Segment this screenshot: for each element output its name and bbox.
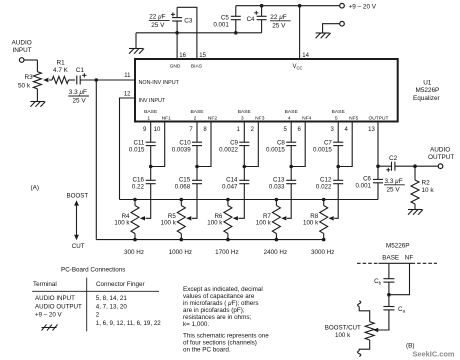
svg-text:2: 2: [194, 115, 197, 121]
svg-text:BASE: BASE: [238, 109, 252, 115]
ground at terminal: [316, 33, 331, 38]
wire R1 to C1: [69, 79, 76, 81]
svg-text:GND: GND: [170, 64, 181, 70]
svg-text:50 k: 50 k: [18, 83, 31, 90]
svg-text:R1: R1: [57, 60, 66, 67]
potentiometer BOOST/CUT 100k: [325, 322, 375, 340]
wire pot bottom with break: [358, 340, 370, 356]
svg-text:13: 13: [368, 127, 375, 133]
wire ground stem: [135, 33, 137, 49]
svg-text:R3: R3: [25, 74, 34, 81]
svg-text:Terminal: Terminal: [33, 281, 57, 288]
svg-text:of four sections (channels): of four sections (channels): [183, 340, 257, 347]
wire C7 to node: [337, 146, 339, 167]
capacitor C5 0.001: [213, 6, 240, 33]
svg-text:25 V: 25 V: [387, 187, 401, 194]
wire C1 to pin 11: [80, 79, 135, 81]
potentiometer R5 100k: [161, 200, 186, 240]
pin 1 BASE 3 lead: [237, 109, 252, 142]
node C5 ground: [234, 31, 238, 35]
svg-text:are in picofarads (pF);: are in picofarads (pF);: [183, 307, 245, 314]
node R4 bottom: [133, 238, 137, 242]
svg-text:+9 – 20 V: +9 – 20 V: [349, 3, 377, 10]
svg-text:C14: C14: [226, 176, 238, 183]
svg-text:22 μF: 22 μF: [149, 14, 165, 21]
svg-text:3: 3: [241, 115, 244, 121]
wire C12 to R8 wiper: [329, 184, 339, 221]
svg-text:AUDIO INPUT: AUDIO INPUT: [35, 295, 75, 302]
svg-text:4: 4: [288, 115, 291, 121]
pin 6 NF4 lead: [291, 115, 311, 166]
svg-text:0.001: 0.001: [213, 21, 229, 28]
svg-text:M5226P: M5226P: [416, 87, 440, 94]
node R8 top: [322, 198, 326, 202]
svg-text:25 V: 25 V: [151, 22, 165, 29]
svg-text:2400 Hz: 2400 Hz: [264, 249, 287, 256]
capacitor C13 0.033: [269, 167, 296, 191]
svg-text:BIAS: BIAS: [191, 64, 203, 70]
potentiometer R7 100k: [256, 200, 281, 240]
svg-text:M5226P: M5226P: [386, 243, 409, 250]
capacitor C14 0.047: [222, 167, 249, 191]
svg-text:1: 1: [147, 115, 150, 121]
svg-text:VCC: VCC: [293, 64, 303, 71]
svg-text:C6: C6: [363, 175, 371, 182]
svg-text:PC-Board Connections: PC-Board Connections: [61, 267, 125, 274]
svg-text:0.0015: 0.0015: [266, 146, 285, 153]
svg-text:R2: R2: [422, 180, 431, 187]
terminal +9-20V: [340, 3, 377, 10]
wire C15 to R5 wiper: [186, 184, 197, 221]
svg-text:4.7 K: 4.7 K: [53, 67, 69, 74]
pin 14 VCC lead: [293, 6, 310, 71]
wire C16 to R4 wiper: [140, 184, 151, 221]
svg-text:C13: C13: [273, 176, 285, 183]
ground at R3: [30, 102, 45, 107]
svg-text:5: 5: [335, 115, 338, 121]
capacitor C16 0.22: [132, 167, 156, 191]
svg-text:NF: NF: [405, 254, 414, 261]
svg-text:0.022: 0.022: [316, 183, 332, 190]
svg-text:AUDIO OUTPUT: AUDIO OUTPUT: [35, 303, 82, 310]
svg-text:3000 Hz: 3000 Hz: [311, 249, 334, 256]
node C4 to rail: [260, 4, 264, 8]
svg-text:C3: C3: [184, 17, 193, 24]
capacitor C6 0.001: [356, 166, 383, 199]
resistor R1 4.7K: [52, 60, 69, 84]
capacitor C4 22uF: [247, 6, 291, 33]
wire Ca to wiper (detail): [373, 310, 389, 332]
svg-text:on the PC board.: on the PC board.: [183, 347, 231, 354]
input bus wire (pot bottoms): [96, 239, 323, 241]
capacitor C9 0.0022: [219, 140, 249, 154]
node R6 top: [226, 198, 230, 202]
ground at R2: [408, 210, 423, 215]
svg-text:C16: C16: [133, 176, 145, 183]
node R7 bottom: [275, 238, 279, 242]
svg-text:0.0015: 0.0015: [313, 146, 332, 153]
pin 7 BASE 2 lead: [189, 109, 204, 142]
svg-text:4, 7, 13, 20: 4, 7, 13, 20: [96, 303, 128, 310]
pin 2 NF3 lead: [244, 115, 264, 166]
svg-text:0.0022: 0.0022: [219, 146, 238, 153]
svg-text:BASE: BASE: [382, 254, 399, 261]
pin 11 label NON-INV INPUT: [124, 73, 179, 86]
terminal AUDIO INPUT: [12, 40, 32, 63]
svg-text:values of capacitance are: values of capacitance are: [183, 293, 255, 300]
svg-text:1, 6, 9, 12, 11, 6, 19, 22: 1, 6, 9, 12, 11, 6, 19, 22: [96, 320, 161, 327]
svg-text:11: 11: [124, 73, 131, 79]
capacitor C3 22uF bypass: [149, 7, 193, 29]
svg-text:+9 – 20 V: +9 – 20 V: [35, 312, 63, 319]
node R5 bottom: [180, 238, 184, 242]
svg-text:1000 Hz: 1000 Hz: [169, 249, 192, 256]
table PC-Board Connections: [32, 267, 161, 332]
svg-text:25 V: 25 V: [73, 98, 87, 105]
svg-text:C15: C15: [179, 176, 191, 183]
svg-text:BASE: BASE: [144, 109, 158, 115]
svg-text:10 k: 10 k: [422, 187, 435, 194]
svg-text:2: 2: [96, 312, 100, 319]
svg-text:U1: U1: [423, 80, 432, 87]
svg-text:BASE: BASE: [190, 109, 204, 115]
wire C14 to R6 wiper: [233, 184, 245, 221]
pin 5 BASE 4 lead: [284, 109, 299, 142]
potentiometer R4 100k: [114, 200, 139, 240]
wire C8 to node: [290, 146, 292, 167]
svg-text:0.047: 0.047: [222, 183, 238, 190]
svg-text:100 k: 100 k: [303, 220, 319, 227]
svg-text:0.001: 0.001: [356, 182, 372, 189]
svg-text:This schematic represents one: This schematic represents one: [183, 333, 269, 340]
terminal AUDIO OUTPUT: [428, 147, 454, 169]
pin 10 NF1 lead: [151, 115, 171, 166]
pin 12 INV INPUT wire to feedback bus: [120, 92, 166, 200]
node R7 top: [275, 198, 279, 202]
svg-text:100 k: 100 k: [256, 220, 272, 227]
capacitor C7 0.0015: [313, 140, 343, 154]
svg-text:NF1: NF1: [162, 115, 172, 121]
capacitor C1 3.3uF: [68, 67, 89, 105]
capacitor C2 3.3uF: [384, 155, 405, 194]
node after C1: [95, 78, 99, 82]
wire pot top with break: [358, 301, 370, 322]
supply rail wire: [236, 5, 340, 7]
capacitor Cb: [374, 263, 394, 294]
svg-text:(A): (A): [31, 185, 40, 192]
wire C13 to R7 wiper: [281, 184, 291, 221]
svg-text:12: 12: [124, 92, 131, 98]
svg-text:10: 10: [154, 127, 161, 133]
pin 4 NF5 lead: [338, 115, 358, 166]
node BASE3/NF3 junction: [243, 165, 247, 169]
svg-text:resistances are in ohms;: resistances are in ohms;: [183, 314, 251, 321]
svg-text:NON-INV INPUT: NON-INV INPUT: [139, 80, 180, 86]
ground at C3: [129, 49, 144, 54]
svg-text:OUTPUT: OUTPUT: [368, 115, 388, 121]
dashed IC edge line: [357, 262, 437, 264]
terminal ground return: [323, 21, 345, 33]
pin 13 OUTPUT lead: [368, 115, 388, 166]
svg-text:0.0039: 0.0039: [172, 146, 191, 153]
svg-text:AUDIO: AUDIO: [12, 40, 32, 47]
svg-text:5, 8, 14, 21: 5, 8, 14, 21: [96, 295, 128, 302]
capacitor C8 0.0015: [266, 140, 296, 154]
svg-text:OUTPUT: OUTPUT: [428, 154, 454, 161]
svg-text:BOOST: BOOST: [67, 192, 89, 199]
capacitor C12 0.022: [316, 167, 343, 191]
node R2 top: [413, 164, 417, 168]
svg-text:SeekIC.com: SeekIC.com: [413, 349, 455, 358]
node C3 ground: [175, 31, 179, 35]
svg-text:16: 16: [179, 53, 186, 59]
resistor R2 10k: [411, 166, 434, 209]
feedback bus wire: [120, 199, 379, 201]
svg-text:0.068: 0.068: [175, 183, 191, 190]
note text block 2: [183, 333, 269, 354]
svg-text:22 μF: 22 μF: [270, 14, 286, 21]
node Cb/NF junction (detail): [387, 293, 391, 297]
svg-text:Except as indicated, decimal: Except as indicated, decimal: [183, 286, 263, 293]
svg-text:NF4: NF4: [302, 115, 312, 121]
capacitor C10 0.0039: [172, 140, 202, 154]
wire C9 to node: [243, 146, 245, 167]
node R4 top: [133, 198, 137, 202]
svg-text:Connector Finger: Connector Finger: [96, 281, 145, 288]
svg-text:100 k: 100 k: [114, 220, 130, 227]
svg-text:NF3: NF3: [255, 115, 265, 121]
wire loop pin16 top to pin 15: [177, 7, 197, 59]
svg-text:1700 Hz: 1700 Hz: [215, 249, 238, 256]
svg-text:0.033: 0.033: [269, 183, 285, 190]
svg-text:BASE: BASE: [285, 109, 299, 115]
node R8 bottom: [322, 238, 326, 242]
svg-text:100 k: 100 k: [335, 332, 351, 339]
capacitor C11 0.015: [129, 140, 156, 154]
wire input terminal to R3 top: [24, 60, 37, 72]
ground wire under C3/C5/C4: [136, 32, 262, 34]
pin 15 BIAS label: [191, 53, 207, 70]
node BASE5/NF5 junction: [336, 165, 340, 169]
node pin14 to rail: [298, 4, 302, 8]
svg-text:CUT: CUT: [72, 243, 85, 250]
node R5 top: [180, 198, 184, 202]
wire C10 to node: [196, 146, 198, 167]
svg-text:25 V: 25 V: [272, 23, 286, 30]
svg-text:AUDIO: AUDIO: [430, 147, 450, 154]
svg-text:NF5: NF5: [349, 115, 359, 121]
svg-text:Equalizer: Equalizer: [413, 95, 441, 102]
pin 3 BASE 5 lead: [331, 109, 346, 142]
svg-text:C2: C2: [389, 155, 398, 162]
wire R3 wiper to R1: [49, 79, 52, 81]
boost/cut direction arrow: [74, 200, 79, 240]
svg-text:0.015: 0.015: [129, 146, 145, 153]
svg-text:15: 15: [199, 53, 206, 59]
svg-text:NF2: NF2: [208, 115, 218, 121]
wire output node to C2: [378, 165, 391, 167]
pin 9 BASE 1 lead: [143, 109, 158, 142]
svg-text:INV INPUT: INV INPUT: [139, 98, 166, 104]
svg-text:C1: C1: [76, 67, 85, 74]
pin 16 GND lead: [170, 21, 187, 70]
svg-text:14: 14: [302, 53, 309, 59]
capacitor Ca: [383, 295, 405, 314]
svg-text:100 k: 100 k: [207, 220, 223, 227]
node output: [376, 164, 380, 168]
node R6 bottom: [226, 238, 230, 242]
potentiometer R3 50k: [18, 72, 48, 90]
svg-text:0.22: 0.22: [132, 183, 145, 190]
svg-text:3.3 μF: 3.3 μF: [385, 178, 403, 185]
svg-text:300 Hz: 300 Hz: [124, 249, 144, 256]
svg-text:100 k: 100 k: [161, 220, 177, 227]
svg-text:in microfarads ( μF); others: in microfarads ( μF); others: [183, 300, 259, 307]
svg-text:C4: C4: [247, 16, 255, 23]
wire R3 bottom to ground: [36, 89, 38, 102]
ground symbol in table: [42, 325, 58, 331]
node BASE4/NF4 junction: [289, 165, 293, 169]
node BASE2/NF2 junction: [195, 165, 199, 169]
pin 8 NF2 lead: [197, 115, 217, 166]
svg-text:k= 1,000.: k= 1,000.: [183, 321, 209, 328]
node BASE1/NF1 junction: [149, 165, 153, 169]
wire C2 to output terminal: [395, 165, 438, 167]
svg-text:3.3 μF: 3.3 μF: [69, 89, 87, 96]
svg-text:BOOST/CUT: BOOST/CUT: [325, 324, 361, 331]
svg-text:C12: C12: [320, 176, 332, 183]
potentiometer R6 100k: [207, 200, 232, 240]
svg-text:INPUT: INPUT: [13, 47, 32, 54]
note text block: [183, 286, 263, 328]
potentiometer R8 100k: [303, 200, 328, 240]
wire node down left rail: [95, 80, 97, 240]
IC U1 M5226P Equalizer: [135, 59, 441, 122]
wire C11 to node: [150, 146, 152, 167]
wire NF drop (detail): [389, 263, 410, 294]
capacitor C15 0.068: [175, 167, 202, 191]
svg-text:BASE: BASE: [332, 109, 346, 115]
